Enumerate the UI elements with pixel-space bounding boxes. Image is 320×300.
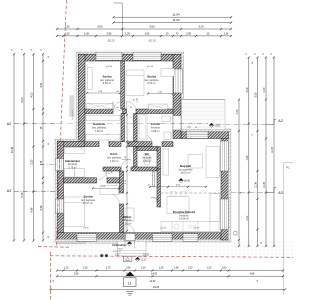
window konyha right xyxy=(220,199,228,230)
svg-text:30: 30 xyxy=(246,53,248,55)
wall wc north xyxy=(137,147,157,151)
window nappali right xyxy=(220,141,228,171)
north/section triangle above L1 xyxy=(126,272,135,277)
svg-text:Nappali: Nappali xyxy=(180,164,191,168)
terrace door nappali xyxy=(187,131,209,138)
wall bedrooms south seg2 xyxy=(123,109,127,114)
svg-text:1,30: 1,30 xyxy=(64,25,70,29)
svg-text:2,22: 2,22 xyxy=(115,254,120,256)
wall eloter east xyxy=(157,169,161,207)
door furdo xyxy=(142,134,152,144)
insulation label strip xyxy=(69,95,74,117)
interior dim nappali 4,60 xyxy=(150,186,206,188)
room label furdo xyxy=(151,122,161,133)
svg-text:p/a 90: p/a 90 xyxy=(147,66,154,68)
top dim row3 xyxy=(57,28,231,30)
door konyha xyxy=(151,198,161,208)
svg-text:30: 30 xyxy=(22,49,24,51)
wall mid seg2 xyxy=(109,142,121,147)
window haztartasi left xyxy=(55,159,63,171)
entrance step box xyxy=(123,256,132,261)
furniture bedroom2 desk xyxy=(161,68,174,76)
svg-text:2,95: 2,95 xyxy=(186,32,191,35)
bottom dim row1 xyxy=(57,270,283,272)
drain gravel strip xyxy=(57,241,86,244)
wall mid seg4 xyxy=(162,142,173,147)
wall wc east xyxy=(157,147,161,170)
dots xyxy=(100,254,103,257)
property line bottom (red dashed) xyxy=(50,256,293,257)
svg-text:3,20: 3,20 xyxy=(198,25,204,29)
wall furdo west xyxy=(134,114,138,142)
svg-text:9,84 m²: 9,84 m² xyxy=(103,82,112,85)
svg-text:Szoba: Szoba xyxy=(147,75,156,79)
svg-text:2,95: 2,95 xyxy=(107,32,112,35)
svg-text:19,04: 19,04 xyxy=(153,285,160,289)
svg-text:12,46: 12,46 xyxy=(11,146,14,153)
svg-text:A2: A2 xyxy=(278,119,282,123)
furniture furdo sink xyxy=(162,116,171,122)
svg-text:hőszigetelés: hőszigetelés xyxy=(71,109,74,120)
covered porch slab xyxy=(118,240,147,256)
wall left lower exterior xyxy=(57,141,63,240)
top dim row4 xyxy=(57,35,231,37)
room label nappali xyxy=(179,164,193,175)
svg-text:30: 30 xyxy=(271,53,273,55)
svg-text:30: 30 xyxy=(263,53,265,55)
svg-text:p/a 90: p/a 90 xyxy=(106,66,113,68)
svg-text:±0,00: ±0,00 xyxy=(184,180,191,183)
svg-text:2,38: 2,38 xyxy=(41,160,43,165)
door szoba3 xyxy=(110,194,120,204)
interior dim bedroom1 xyxy=(87,92,120,94)
elevation marker entrance xyxy=(135,257,139,261)
wall mid seg3 xyxy=(128,142,152,147)
svg-text:2,98: 2,98 xyxy=(74,273,79,276)
svg-text:90: 90 xyxy=(134,99,136,101)
svg-text:4,66: 4,66 xyxy=(250,273,255,276)
axis stub left mid xyxy=(40,164,57,166)
svg-text:A2: A2 xyxy=(7,122,11,126)
svg-text:90: 90 xyxy=(130,107,132,109)
svg-text:5,75 m²: 5,75 m² xyxy=(68,166,77,169)
svg-text:11,92: 11,92 xyxy=(149,280,156,283)
wall bedrooms south seg3 xyxy=(136,109,173,114)
svg-text:302,02: 302,02 xyxy=(107,40,115,43)
L1 box xyxy=(124,278,137,287)
interior dim bedroom2 xyxy=(148,93,173,95)
svg-text:A3: A3 xyxy=(7,189,11,193)
svg-text:9,60: 9,60 xyxy=(149,25,155,29)
entrance door gap xyxy=(125,234,136,241)
window bedroom2 top xyxy=(133,52,161,60)
wall right exterior xyxy=(221,131,229,240)
insulation band right xyxy=(228,129,230,241)
furniture szoba3 bed xyxy=(64,197,85,227)
wall eloter west lower xyxy=(120,204,124,233)
furniture furdo wm xyxy=(164,132,171,140)
svg-text:1,20: 1,20 xyxy=(207,266,212,269)
svg-text:6,43: 6,43 xyxy=(21,192,24,197)
svg-text:Háztartási: Háztartási xyxy=(65,159,80,163)
opening nappali west 150 xyxy=(173,116,181,131)
door entrance xyxy=(125,224,135,234)
furniture eloter closet xyxy=(125,208,134,221)
svg-text:1,38: 1,38 xyxy=(174,266,179,269)
wall bedrooms south seg1 xyxy=(85,109,113,114)
wall kozl south seg1 xyxy=(103,167,121,171)
furniture szoba3 desk xyxy=(100,186,119,195)
svg-text:-0,02: -0,02 xyxy=(215,125,221,128)
svg-text:4,48: 4,48 xyxy=(31,207,34,212)
svg-text:Szoba: Szoba xyxy=(83,195,92,199)
svg-text:11,94: 11,94 xyxy=(172,13,180,17)
window szoba3 left xyxy=(55,199,63,213)
svg-text:2,30: 2,30 xyxy=(31,159,34,164)
wall haztartasi south seg2 xyxy=(107,178,121,183)
room label wc xyxy=(143,152,153,163)
svg-text:302,02: 302,02 xyxy=(148,40,156,43)
insulation band top xyxy=(76,52,182,54)
svg-text:6,03: 6,03 xyxy=(21,97,24,102)
elevation marker threshold xyxy=(127,241,131,245)
svg-text:1,30: 1,30 xyxy=(65,32,70,35)
property corner stub (red dashed) xyxy=(38,246,70,249)
window bedroom2 right xyxy=(174,69,183,93)
elevation marker nappali xyxy=(179,178,183,182)
svg-text:39/42 16: 39/42 16 xyxy=(113,251,122,253)
furniture bedroom1: cabinet left xyxy=(88,68,93,90)
top dim row2 11,92 xyxy=(114,22,232,24)
ceiling break dashed nappali/konyha xyxy=(161,192,222,194)
wall kozl south seg2 xyxy=(131,167,157,171)
ground symbol under L1 xyxy=(126,292,134,296)
furniture bedroom2 bed xyxy=(126,70,144,96)
svg-text:4,40: 4,40 xyxy=(236,109,239,114)
svg-text:Wc: Wc xyxy=(145,152,150,156)
terrace deck xyxy=(181,100,225,132)
insulation band bedroomblock right xyxy=(181,52,183,99)
svg-text:Gardrob: Gardrob xyxy=(93,122,105,126)
svg-text:10,07 m²: 10,07 m² xyxy=(83,202,93,205)
svg-text:2,47: 2,47 xyxy=(246,215,249,220)
svg-text:A3: A3 xyxy=(278,191,282,195)
svg-text:1,90: 1,90 xyxy=(126,266,131,269)
right dim lines xyxy=(248,58,250,247)
misc small marks right of building xyxy=(234,232,237,235)
svg-text:Fedett előtér: Fedett előtér xyxy=(112,244,126,247)
window konyha bottom2 xyxy=(183,234,198,242)
svg-text:-0,17: -0,17 xyxy=(141,259,147,262)
wall gardrob east xyxy=(121,114,125,142)
svg-text:12,70: 12,70 xyxy=(271,146,274,153)
svg-text:Konyha-Étkező: Konyha-Étkező xyxy=(173,209,195,214)
svg-text:4,09 m²: 4,09 m² xyxy=(110,160,119,163)
left dim lines xyxy=(13,54,15,240)
wall bedroom divider xyxy=(121,61,125,109)
door xyxy=(0,0,1,1)
svg-text:30: 30 xyxy=(41,49,43,51)
wall mid seg1 xyxy=(85,142,99,147)
svg-text:19,19: 19,19 xyxy=(143,254,149,256)
svg-text:4,03: 4,03 xyxy=(31,92,34,97)
svg-text:Fürdő: Fürdő xyxy=(151,122,160,126)
konyha chairs xyxy=(170,192,176,197)
furniture konyha table xyxy=(167,197,189,214)
bottom dim row3 long xyxy=(51,289,286,291)
room label szoba3 xyxy=(81,195,95,206)
elevation marker terrace xyxy=(209,123,213,127)
axis A2 xyxy=(7,119,283,126)
furniture bedroom2 wardrobe xyxy=(149,104,167,109)
room label haztartasi xyxy=(65,159,80,170)
svg-text:14,06 m²: 14,06 m² xyxy=(179,218,189,221)
insulation band left upper xyxy=(76,52,78,146)
konyha counter divisions xyxy=(172,222,210,232)
wall haztartasi south seg1 xyxy=(64,178,97,183)
svg-text:9,54 m²: 9,54 m² xyxy=(147,82,156,85)
door bedroom1 xyxy=(113,102,123,112)
svg-text:1,20: 1,20 xyxy=(188,266,193,269)
wall eloter west upper xyxy=(120,171,124,193)
svg-text:1,10: 1,10 xyxy=(64,266,69,269)
svg-text:2,40: 2,40 xyxy=(136,98,138,102)
room label eloter xyxy=(123,215,133,226)
svg-text:1,06: 1,06 xyxy=(145,32,150,35)
svg-text:1,06: 1,06 xyxy=(84,32,89,35)
svg-text:12,76: 12,76 xyxy=(263,181,266,188)
svg-text:1,26: 1,26 xyxy=(159,266,164,269)
insulation band left lower xyxy=(55,139,57,241)
insulation band nappali top xyxy=(181,129,231,131)
room label szoba1 xyxy=(100,75,114,86)
svg-text:30: 30 xyxy=(12,49,14,51)
wall step exterior xyxy=(57,141,85,146)
svg-text:19/42: 19/42 xyxy=(118,248,123,250)
wall nappali top exterior xyxy=(181,131,229,139)
wall bottom exterior xyxy=(57,233,228,240)
furniture wc toilet xyxy=(144,156,150,161)
low wall stub xyxy=(153,172,155,187)
window bedroom1 top xyxy=(96,52,122,60)
svg-text:90: 90 xyxy=(116,107,118,109)
eaves outline xyxy=(54,51,231,243)
furniture haztartasi machines xyxy=(65,169,75,178)
window konyha bottom1 xyxy=(153,234,173,242)
room label kozl xyxy=(107,152,121,163)
wall top exterior xyxy=(78,54,182,61)
svg-text:11,92: 11,92 xyxy=(172,18,180,22)
svg-text:7,90 m²: 7,90 m² xyxy=(95,130,104,133)
interior vertical dim chain middle xyxy=(126,115,128,231)
top dim bracket xyxy=(114,3,123,36)
svg-text:2,16: 2,16 xyxy=(224,32,229,35)
svg-text:18,01 m²: 18,01 m² xyxy=(181,172,191,175)
svg-text:6,88 m²: 6,88 m² xyxy=(151,130,160,133)
svg-text:14,92: 14,92 xyxy=(151,273,158,276)
door bedroom2 xyxy=(127,102,137,112)
furniture bedroom1 wardrobe xyxy=(87,103,113,109)
svg-text:1,30: 1,30 xyxy=(141,266,146,269)
P1 callout frame xyxy=(284,163,294,295)
room label konyha xyxy=(173,209,195,221)
svg-text:3,40: 3,40 xyxy=(246,87,249,92)
svg-text:90: 90 xyxy=(195,127,197,129)
svg-text:3,48: 3,48 xyxy=(40,205,43,210)
bottom dim row2 xyxy=(57,275,283,277)
svg-text:12,36: 12,36 xyxy=(255,181,258,188)
svg-text:p/e 90: p/e 90 xyxy=(83,228,89,230)
svg-text:30: 30 xyxy=(147,185,149,187)
furniture furdo tub xyxy=(138,115,147,141)
svg-text:p/e 90: p/e 90 xyxy=(194,228,200,230)
window szoba3 bottom xyxy=(77,234,97,242)
svg-text:3,61: 3,61 xyxy=(40,82,43,87)
wall bedroom-block right exterior xyxy=(173,54,181,138)
svg-text:Szoba: Szoba xyxy=(102,75,111,79)
property line left (red dashed) xyxy=(56,0,66,245)
svg-text:P1: P1 xyxy=(286,166,290,170)
door wc xyxy=(121,159,131,169)
insulation band bottom xyxy=(55,239,230,241)
svg-text:30: 30 xyxy=(255,53,257,55)
svg-text:30: 30 xyxy=(31,49,33,51)
svg-text:Közl.: Közl. xyxy=(110,152,118,156)
svg-text:5,00: 5,00 xyxy=(255,92,258,97)
wall left upper exterior xyxy=(78,54,85,146)
property line bottom-left vertical (red dashed) xyxy=(50,252,52,300)
furniture konyha counter xyxy=(161,222,219,232)
svg-text:6,60: 6,60 xyxy=(97,25,103,29)
furniture nappali sofa xyxy=(206,147,220,178)
svg-text:1,00: 1,00 xyxy=(222,266,227,269)
wall wc west xyxy=(134,147,138,170)
insulation band step xyxy=(55,139,78,141)
top dim row1 11,94 xyxy=(114,16,232,18)
svg-text:1,29: 1,29 xyxy=(125,32,130,35)
svg-text:1,70: 1,70 xyxy=(106,266,111,269)
svg-text:1,26: 1,26 xyxy=(83,266,88,269)
room label szoba2 xyxy=(145,75,159,86)
door gardrob xyxy=(99,134,109,144)
svg-text:L1: L1 xyxy=(128,282,132,286)
svg-text:3,40: 3,40 xyxy=(263,87,266,92)
room label gardrob xyxy=(92,122,106,133)
furniture gardrob shelves xyxy=(86,115,120,120)
svg-text:p/e 90: p/e 90 xyxy=(161,228,167,230)
svg-text:1,00: 1,00 xyxy=(246,155,249,160)
axis A3 xyxy=(7,188,283,196)
interior dim szoba3 xyxy=(93,187,119,189)
svg-text:1,99 m²: 1,99 m² xyxy=(143,160,152,163)
door haztartasi xyxy=(97,170,107,180)
entrance threshold lines xyxy=(124,241,126,249)
pavement grid xyxy=(51,242,293,256)
